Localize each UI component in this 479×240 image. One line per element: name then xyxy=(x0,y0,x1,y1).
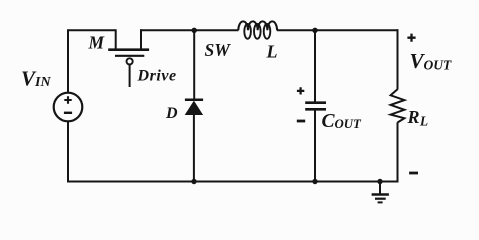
transistor M (MOSFET) xyxy=(108,29,149,87)
node capacitor-bottom junction xyxy=(312,179,317,184)
svg-text:Drive: Drive xyxy=(137,68,177,85)
voltage source VIN xyxy=(54,93,83,122)
wire SW branch down to diode xyxy=(193,30,195,100)
node ground junction xyxy=(377,179,382,184)
wire cap branch upper xyxy=(314,30,316,101)
label plus output xyxy=(407,34,415,42)
svg-text:D: D xyxy=(165,105,178,122)
wire right branch lower xyxy=(397,122,399,182)
svg-text:VIN: VIN xyxy=(21,67,51,91)
svg-text:VOUT: VOUT xyxy=(410,49,453,73)
node SW junction xyxy=(192,28,197,33)
inductor L xyxy=(238,21,277,38)
diode D xyxy=(185,100,203,182)
wire bottom rail xyxy=(67,181,398,183)
capacitor COUT xyxy=(305,103,326,182)
label minus capacitor xyxy=(297,120,305,123)
svg-text:SW: SW xyxy=(205,40,232,60)
wire top middle M to inductor xyxy=(140,29,239,31)
svg-text:L: L xyxy=(266,42,278,62)
wire left branch lower xyxy=(67,121,69,182)
wire right branch upper xyxy=(397,29,399,89)
ground xyxy=(372,182,389,203)
svg-text:COUT: COUT xyxy=(322,111,362,132)
wire top right inductor to corner xyxy=(277,29,399,31)
wire left branch upper xyxy=(67,29,69,93)
node diode-bottom junction xyxy=(191,179,196,184)
label plus capacitor xyxy=(297,87,304,94)
node capacitor-top junction xyxy=(312,28,317,33)
svg-text:RL: RL xyxy=(407,107,429,128)
wire top-left from Vin to M xyxy=(68,29,116,31)
label minus output xyxy=(409,172,418,175)
svg-text:M: M xyxy=(88,33,106,53)
resistor RL xyxy=(391,89,405,122)
